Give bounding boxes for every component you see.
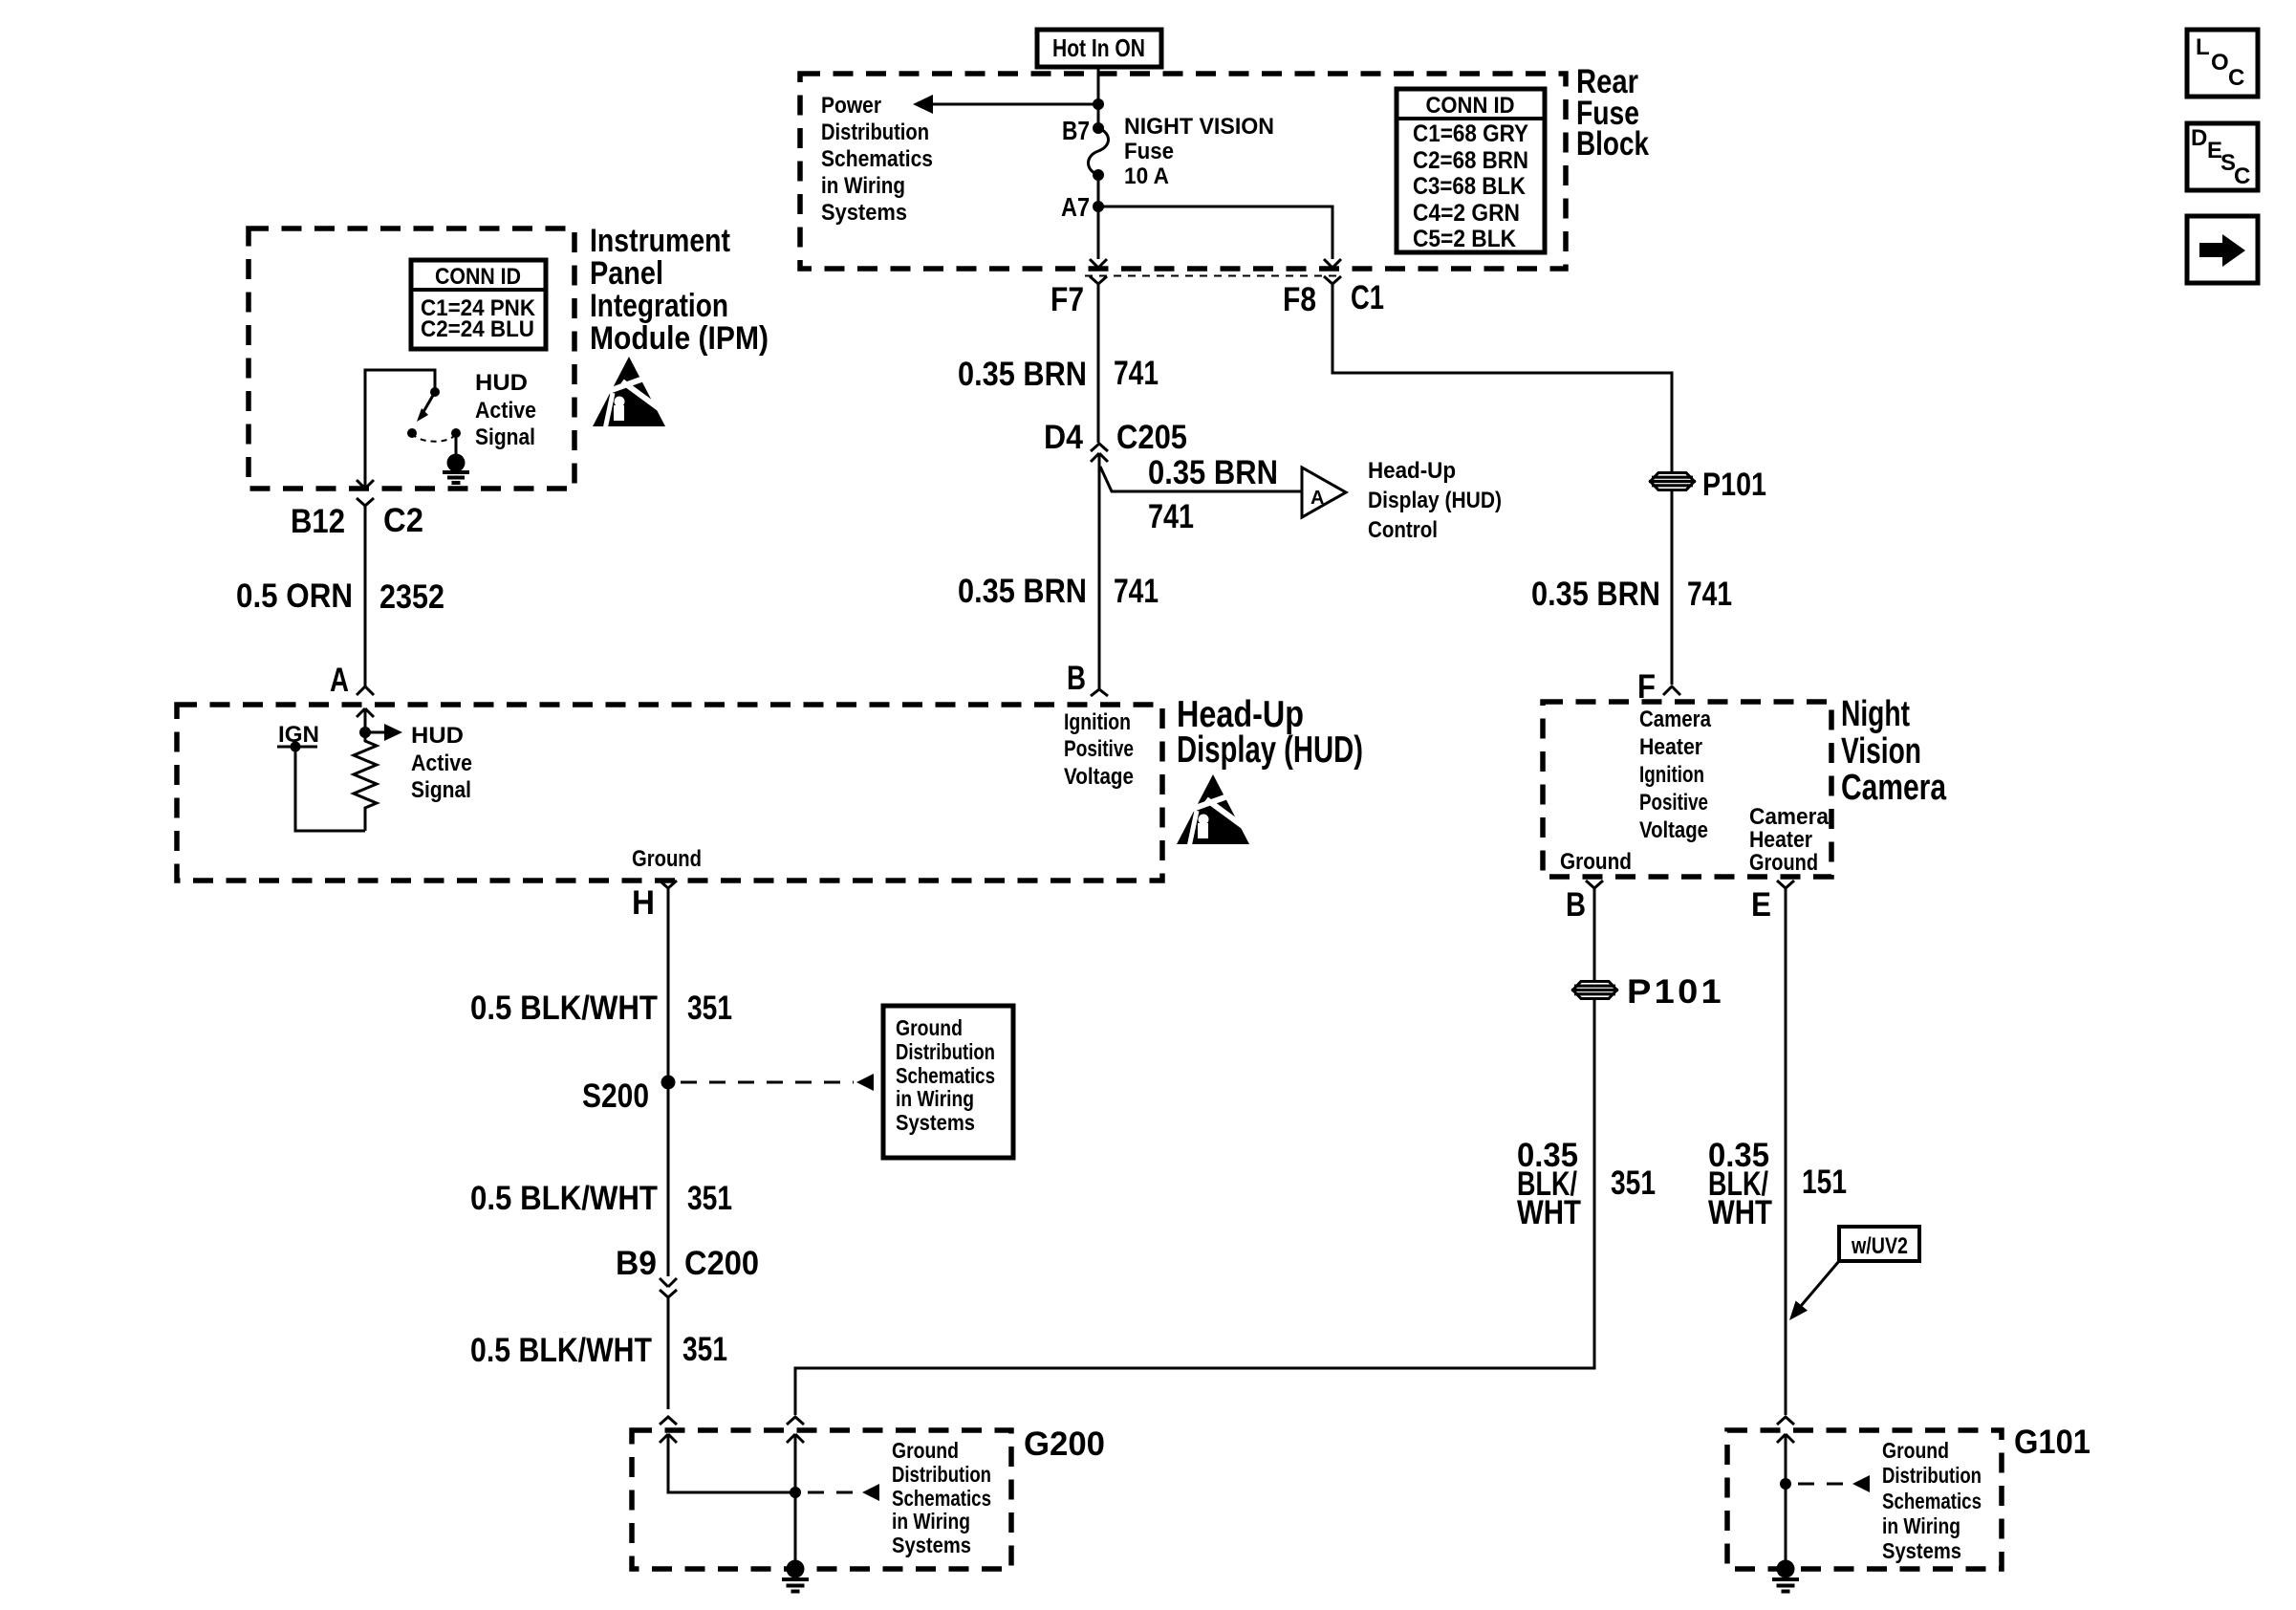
svg-text:0.35 BRN: 0.35 BRN — [958, 356, 1087, 393]
svg-text:351: 351 — [687, 990, 732, 1027]
wire P101 to G200 0.35 BLK/WHT 351 — [795, 1000, 1594, 1415]
svg-text:741: 741 — [1687, 576, 1732, 613]
table CONN ID IPM — [411, 260, 546, 349]
svg-text:Schematics: Schematics — [892, 1486, 991, 1511]
svg-text:B7: B7 — [1062, 116, 1090, 145]
svg-text:351: 351 — [682, 1331, 727, 1368]
svg-text:in Wiring: in Wiring — [821, 173, 905, 199]
splice reference line G101 — [1798, 1483, 1849, 1486]
svg-text:C2=68 BRN: C2=68 BRN — [1413, 147, 1528, 174]
svg-text:Positive: Positive — [1064, 736, 1134, 762]
icon forward-arrow box — [2187, 216, 2258, 283]
svg-text:F7: F7 — [1051, 281, 1084, 318]
svg-text:A7: A7 — [1061, 192, 1090, 222]
svg-text:C4=2 GRN: C4=2 GRN — [1413, 200, 1520, 227]
svg-text:Schematics: Schematics — [821, 146, 933, 172]
svg-text:Heater: Heater — [1749, 827, 1812, 853]
svg-text:C1=68 GRY: C1=68 GRY — [1413, 120, 1528, 147]
arrow HUD active signal output — [365, 731, 386, 734]
svg-text:151: 151 — [1802, 1164, 1847, 1201]
off-page reference A triangle — [1302, 468, 1346, 517]
ESD symbol IPM — [593, 357, 669, 429]
svg-text:Integration: Integration — [590, 288, 728, 324]
wire A7 to F7 — [1097, 207, 1100, 259]
fuse NIGHT VISION 10A — [1093, 122, 1104, 134]
wire P101 to F 0.35 BRN 741 — [1671, 491, 1674, 685]
svg-text:0.5 BLK/WHT: 0.5 BLK/WHT — [470, 990, 658, 1027]
connector into G101 — [1777, 1417, 1794, 1425]
svg-text:P101: P101 — [1627, 973, 1724, 1011]
svg-text:741: 741 — [1148, 498, 1194, 535]
svg-text:Ignition: Ignition — [1064, 709, 1131, 735]
wire from Hot In ON — [1097, 67, 1100, 128]
svg-text:Active: Active — [411, 751, 472, 776]
svg-text:Distribution: Distribution — [892, 1462, 991, 1487]
svg-text:741: 741 — [1114, 573, 1159, 610]
svg-text:w/UV2: w/UV2 — [1851, 1233, 1908, 1259]
pass-through grommet P101 lower — [1571, 982, 1618, 999]
svg-text:Schematics: Schematics — [896, 1063, 995, 1088]
svg-text:C5=2 BLK: C5=2 BLK — [1413, 226, 1516, 252]
svg-text:Distribution: Distribution — [896, 1039, 995, 1064]
svg-text:Night: Night — [1841, 694, 1910, 734]
svg-text:Distribution: Distribution — [821, 120, 929, 145]
resistor HUD active signal — [354, 732, 377, 831]
wire fuse to A7 — [1097, 175, 1100, 207]
svg-text:0.35 BRN: 0.35 BRN — [1531, 576, 1660, 613]
splice reference line G200 — [808, 1491, 858, 1494]
wire HUD pin A internal — [357, 708, 374, 717]
wire S200 to C200 0.5 BLK/WHT 351 — [667, 1082, 670, 1276]
svg-text:Heater: Heater — [1639, 734, 1702, 760]
svg-text:Signal: Signal — [475, 424, 535, 450]
ground component box G101 — [1727, 1430, 2002, 1569]
svg-text:C200: C200 — [684, 1245, 759, 1282]
ground symbol in IPM — [447, 454, 466, 472]
svg-text:Camera: Camera — [1639, 707, 1712, 732]
svg-text:Voltage: Voltage — [1064, 764, 1134, 790]
svg-text:Positive: Positive — [1639, 790, 1708, 816]
svg-text:Fuse: Fuse — [1124, 139, 1174, 164]
wire arrow to power distribution — [931, 103, 1098, 106]
svg-text:G101: G101 — [2014, 1424, 2090, 1461]
svg-text:2352: 2352 — [379, 578, 444, 616]
svg-text:0.5 BLK/WHT: 0.5 BLK/WHT — [470, 1332, 652, 1369]
table CONN ID rear fuse block — [1397, 89, 1545, 252]
connector pin B of HUD — [1091, 689, 1108, 696]
svg-text:351: 351 — [687, 1180, 732, 1217]
pass-through grommet P101 upper — [1649, 473, 1696, 490]
wire branch to HUD control 0.35 BRN 741 — [1100, 467, 1302, 491]
arrow w/UV2 to wire — [1801, 1261, 1839, 1306]
wire inside G200 left — [660, 1434, 677, 1443]
svg-text:C2: C2 — [383, 502, 423, 539]
wire inside G101 — [1777, 1434, 1794, 1443]
wire A7 to F8 — [1098, 207, 1332, 259]
svg-text:F: F — [1637, 668, 1656, 706]
wire F8/C1 to P101 upper — [1332, 284, 1672, 471]
svg-text:Hot In ON: Hot In ON — [1052, 33, 1145, 62]
svg-text:E: E — [1751, 886, 1771, 924]
svg-text:B12: B12 — [291, 503, 345, 540]
svg-text:Panel: Panel — [590, 255, 663, 292]
svg-text:H: H — [632, 884, 655, 922]
wire H to S200 0.5 BLK/WHT 351 — [667, 888, 670, 1077]
connector into G200 right — [787, 1417, 804, 1425]
wire E to G101 0.35 BLK/WHT 151 — [1785, 888, 1787, 1415]
svg-text:C1: C1 — [1351, 279, 1384, 316]
svg-text:C3=68 BLK: C3=68 BLK — [1413, 173, 1526, 200]
svg-text:Distribution: Distribution — [1882, 1463, 1982, 1488]
svg-text:Voltage: Voltage — [1639, 817, 1708, 843]
ESD symbol HUD — [1177, 774, 1253, 847]
svg-text:NIGHT VISION: NIGHT VISION — [1124, 114, 1274, 140]
svg-text:Ignition: Ignition — [1639, 762, 1704, 788]
label box Hot In ON — [1037, 30, 1161, 67]
connector pin A of HUD — [357, 686, 374, 695]
svg-text:Module (IPM): Module (IPM) — [590, 320, 769, 357]
svg-text:B9: B9 — [616, 1245, 657, 1282]
svg-text:G200: G200 — [1024, 1425, 1105, 1463]
inline connector C205 D4 — [1091, 444, 1108, 451]
connector pin B12 C2 — [357, 498, 374, 506]
svg-text:A: A — [1310, 488, 1324, 509]
svg-text:Active: Active — [475, 398, 536, 424]
svg-text:in Wiring: in Wiring — [896, 1086, 974, 1111]
svg-text:351: 351 — [1611, 1164, 1656, 1202]
svg-text:0.35 BRN: 0.35 BRN — [1148, 454, 1278, 491]
connector pin F of night vision camera — [1663, 686, 1680, 695]
svg-text:S200: S200 — [582, 1077, 649, 1115]
connector line C1 rear fuse block — [1085, 275, 1343, 277]
svg-text:Control: Control — [1368, 517, 1438, 543]
connector pin B of night vision camera — [1586, 881, 1603, 888]
connector pin F8 C1 — [1324, 276, 1341, 284]
svg-text:Display (HUD): Display (HUD) — [1177, 729, 1363, 771]
svg-text:Head-Up: Head-Up — [1368, 458, 1456, 484]
component box Rear Fuse Block — [800, 74, 1566, 269]
connector pin H of HUD — [660, 881, 677, 888]
svg-text:WHT: WHT — [1517, 1194, 1581, 1231]
option label w/UV2 — [1839, 1227, 1919, 1261]
svg-text:CONN ID: CONN ID — [435, 264, 521, 290]
svg-text:Vision: Vision — [1841, 731, 1921, 772]
svg-text:D4: D4 — [1044, 419, 1083, 456]
svg-text:0.5 BLK/WHT: 0.5 BLK/WHT — [470, 1180, 658, 1217]
svg-text:A: A — [330, 662, 349, 699]
svg-text:Instrument: Instrument — [590, 223, 730, 259]
wire C200 to G200 0.5 BLK/WHT 351 — [667, 1297, 670, 1409]
svg-text:Ground: Ground — [1560, 849, 1632, 875]
svg-text:Camera: Camera — [1841, 768, 1947, 808]
svg-text:Ground: Ground — [1882, 1438, 1949, 1463]
svg-text:D: D — [2191, 125, 2207, 151]
svg-text:Display (HUD): Display (HUD) — [1368, 488, 1502, 513]
svg-text:in Wiring: in Wiring — [1882, 1513, 1960, 1538]
wire 0.5 ORN 2352 — [364, 506, 367, 686]
reference box Ground Distribution Schematics S200 — [883, 1006, 1013, 1158]
wire F7 to C205 0.35 BRN 741 — [1097, 284, 1100, 443]
component box Instrument Panel Integration Module — [249, 228, 574, 489]
svg-text:Block: Block — [1576, 125, 1649, 163]
wire inside G200 right — [787, 1434, 804, 1443]
svg-text:L: L — [2196, 34, 2210, 60]
ground component box G200 — [632, 1430, 1011, 1569]
svg-text:P101: P101 — [1702, 467, 1766, 503]
switch HUD active signal in IPM — [365, 370, 435, 489]
wire B to P101 — [1593, 888, 1596, 980]
icon LOC box — [2187, 30, 2258, 97]
svg-text:Systems: Systems — [892, 1533, 971, 1557]
svg-text:B: B — [1067, 660, 1086, 697]
svg-text:C: C — [2228, 65, 2244, 91]
component box Head-Up Display HUD — [177, 705, 1162, 881]
svg-text:Schematics: Schematics — [1882, 1489, 1982, 1513]
connector into G200 left — [660, 1417, 677, 1425]
splice S200 — [661, 1076, 676, 1090]
ground symbol G200 — [787, 1560, 805, 1578]
svg-text:B: B — [1566, 886, 1586, 924]
ground symbol G101 — [1777, 1560, 1795, 1578]
svg-text:Systems: Systems — [896, 1110, 975, 1135]
svg-text:0.35 BRN: 0.35 BRN — [958, 573, 1087, 610]
icon DESC box — [2187, 123, 2258, 190]
svg-text:C: C — [2234, 163, 2250, 189]
svg-text:Signal: Signal — [411, 777, 471, 803]
svg-text:O: O — [2211, 50, 2229, 76]
svg-text:10 A: 10 A — [1124, 163, 1169, 189]
svg-text:WHT: WHT — [1708, 1194, 1772, 1231]
svg-text:Ground: Ground — [632, 846, 702, 872]
svg-text:in Wiring: in Wiring — [892, 1509, 970, 1534]
svg-text:Power: Power — [821, 93, 881, 119]
component box Night Vision Camera — [1543, 702, 1831, 877]
svg-text:CONN ID: CONN ID — [1426, 93, 1515, 119]
wire IPM switch to pin B12 — [357, 480, 374, 489]
svg-text:Ground: Ground — [892, 1438, 959, 1463]
splice reference line S200 — [681, 1081, 854, 1084]
connector pin E of night vision camera — [1777, 881, 1794, 888]
svg-text:Ground: Ground — [1749, 850, 1818, 876]
svg-text:C2=24 BLU: C2=24 BLU — [421, 316, 534, 342]
svg-text:0.5 ORN: 0.5 ORN — [236, 577, 353, 615]
svg-text:741: 741 — [1114, 355, 1159, 392]
connector pin F7 — [1090, 276, 1107, 284]
svg-text:Systems: Systems — [1882, 1538, 1961, 1563]
svg-text:C205: C205 — [1116, 419, 1187, 456]
svg-text:HUD: HUD — [411, 723, 464, 749]
svg-text:Ground: Ground — [896, 1015, 963, 1040]
svg-text:Camera: Camera — [1749, 804, 1830, 830]
svg-text:F8: F8 — [1283, 281, 1316, 318]
wire C205 to HUD pin B 0.35 BRN 741 — [1098, 453, 1101, 688]
svg-text:Systems: Systems — [821, 200, 907, 226]
svg-text:HUD: HUD — [475, 370, 528, 396]
wire IGN node — [277, 746, 317, 749]
